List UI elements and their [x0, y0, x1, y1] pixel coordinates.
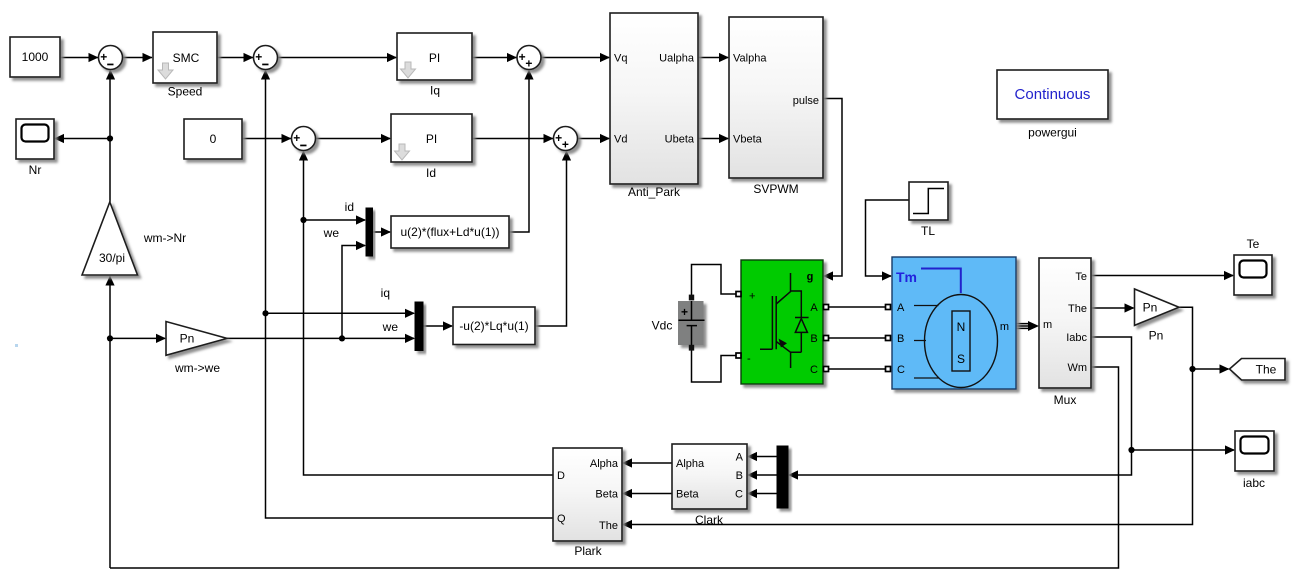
svg-text:+: + [100, 50, 107, 64]
wire motor m to Mux (bus) [1016, 324, 1030, 329]
wire 1000 to Sum1 [60, 57, 98, 59]
wire Sum3 to Anti_Park Vq [541, 57, 609, 59]
sum Sum3 [517, 46, 541, 71]
svg-text:Wm: Wm [1067, 362, 1087, 374]
svg-text:powergui: powergui [1028, 126, 1077, 140]
svg-text:Clark: Clark [695, 513, 724, 527]
svg-text:Mux: Mux [1054, 393, 1077, 407]
svg-text:C: C [735, 489, 743, 501]
svg-text:+: + [525, 57, 532, 71]
scope Te [1234, 237, 1272, 295]
svg-text:Ubeta: Ubeta [665, 134, 695, 146]
gain Pn (Te) [1135, 289, 1180, 343]
svg-text:SVPWM: SVPWM [753, 182, 798, 196]
svg-text:+: + [562, 138, 569, 152]
demux (iabc) [777, 446, 788, 508]
svg-text:g: g [807, 271, 814, 283]
svg-text:Pn: Pn [1143, 301, 1158, 315]
gain Pn wm->we [166, 322, 227, 376]
motor port leads [914, 306, 939, 379]
svg-text:Nr: Nr [29, 163, 42, 177]
wire Anti_Park Ubeta to SVPWM Vbeta [698, 138, 728, 140]
svg-text:-: - [747, 353, 751, 365]
node iabc branch [1128, 447, 1134, 453]
svg-text:wm->Nr: wm->Nr [143, 231, 186, 245]
svg-text:0: 0 [210, 132, 217, 146]
wire Plark D to Sum4 (id feedback) [304, 152, 554, 476]
wire Mux The to Pn [1091, 307, 1134, 309]
magnet rect N/S [952, 311, 970, 371]
svg-text:Vq: Vq [614, 53, 627, 65]
svg-text:Beta: Beta [676, 489, 700, 501]
wire PI Iq to Sum3 [472, 57, 517, 59]
svg-text:PI: PI [429, 51, 440, 65]
svg-text:30/pi: 30/pi [99, 251, 125, 265]
wire Pn output down to The tag and Plark The [623, 307, 1193, 524]
wire inverter A to motor A [829, 306, 885, 308]
scope Nr [16, 119, 54, 177]
wire Mux Wm bottom feedback [110, 367, 1119, 568]
wire Vdc plus to inverter [692, 265, 737, 296]
PI controller Iq [397, 33, 472, 98]
motor port squares [886, 305, 891, 310]
mux Mux1 (id,we) [323, 200, 373, 256]
svg-text:we: we [323, 226, 340, 240]
wire Clark Alpha to Plark Alpha [623, 462, 672, 464]
wire Sum5 to Anti_Park Vd [578, 138, 610, 140]
wire SMC to Sum2 [217, 57, 253, 59]
svg-text:wm->we: wm->we [174, 361, 220, 375]
powergui block [997, 70, 1108, 140]
sum Sum2 [254, 46, 278, 70]
node we branch to mux1 [339, 335, 345, 341]
wire The branch to tag [1193, 368, 1229, 370]
svg-text:m: m [1043, 319, 1052, 331]
wire fcn1 output up to Sum3 [509, 71, 529, 233]
wire Anti_Park Ualpha to SVPWM Valpha [698, 57, 728, 59]
wire mux1 to fcn1 [373, 231, 391, 233]
wire 30/pi apex to Sum1 bottom [109, 71, 111, 203]
wire Sum1 to SMC [123, 57, 153, 59]
inverter port squares [736, 292, 741, 297]
node The branch [1189, 366, 1195, 372]
svg-text:Beta: Beta [595, 489, 619, 501]
wire iq to mux2 [266, 312, 415, 314]
DC source Vdc [652, 295, 705, 351]
node id branch [300, 217, 306, 223]
svg-text:Te: Te [1247, 237, 1260, 251]
wire TL to motor Tm [866, 200, 910, 276]
wire Vdc minus to inverter [692, 350, 737, 382]
svg-text:A: A [897, 302, 905, 314]
sum Sum5 [554, 127, 578, 152]
svg-text:+: + [749, 291, 755, 303]
svg-text:Alpha: Alpha [590, 458, 619, 470]
wire Plark Q to Sum2 (iq feedback) [266, 71, 554, 519]
svg-text:m: m [1000, 321, 1009, 333]
svg-text:The: The [1256, 363, 1277, 377]
svg-text:C: C [897, 364, 905, 376]
svg-text:Alpha: Alpha [676, 458, 705, 470]
mux Mux2 (iq,we) [381, 286, 423, 351]
svg-text:Vdc: Vdc [652, 319, 673, 333]
PMSM motor block (blue) [886, 257, 1017, 389]
wire Pn (wm->we) output we-line [227, 337, 414, 339]
wire mux2 to fcn2 [423, 325, 452, 327]
svg-text:u(2)*(flux+Ld*u(1)): u(2)*(flux+Ld*u(1)) [400, 225, 499, 239]
output tag The [1230, 359, 1286, 381]
wire 0 to Sum4 [242, 138, 291, 140]
wire Clark Beta to Plark Beta [623, 493, 672, 495]
svg-text:A: A [810, 302, 818, 314]
gain 30/pi wm->Nr [82, 202, 186, 275]
step source TL [909, 182, 948, 238]
subsystem Clark [672, 444, 747, 527]
svg-text:PI: PI [426, 132, 437, 146]
wire fcn2 output up to Sum5 [535, 152, 567, 327]
svg-text:Valpha: Valpha [733, 53, 767, 65]
svg-text:pulse: pulse [793, 95, 819, 107]
svg-text:Continuous: Continuous [1015, 86, 1091, 103]
svg-text:Iabc: Iabc [1066, 332, 1087, 344]
svg-text:C: C [810, 364, 818, 376]
wire SVPWM pulse to inverter g [823, 99, 842, 277]
svg-text:Ualpha: Ualpha [659, 53, 695, 65]
wire PI Id to Sum5 [472, 138, 553, 140]
svg-text:B: B [736, 470, 743, 482]
svg-text:+: + [293, 131, 300, 145]
subsystem SMC [153, 32, 217, 99]
svg-text:-u(2)*Lq*u(1): -u(2)*Lq*u(1) [459, 319, 528, 333]
svg-text:Speed: Speed [168, 85, 203, 99]
wire we branch up to mux1 [342, 246, 365, 339]
svg-text:A: A [736, 452, 744, 464]
mux block Mux [1039, 258, 1091, 407]
PI controller Id [391, 114, 472, 180]
svg-text:Q: Q [557, 513, 566, 525]
wire feedback speed vertical x110 [109, 276, 111, 568]
svg-text:1000: 1000 [22, 50, 49, 64]
scope iabc [1235, 431, 1274, 490]
svg-text:B: B [897, 333, 904, 345]
wire demux to Clark A [748, 456, 777, 458]
svg-text:Tm: Tm [896, 269, 917, 285]
svg-text:Plark: Plark [574, 544, 602, 558]
wire demux to Clark C [748, 493, 777, 495]
svg-text:B: B [810, 333, 817, 345]
wire to Nr scope [55, 138, 110, 140]
svg-text:+: + [255, 50, 262, 64]
svg-text:The: The [599, 520, 618, 532]
wire inverter B to motor B [829, 337, 885, 339]
svg-text:Pn: Pn [180, 332, 195, 346]
svg-text:TL: TL [921, 224, 935, 238]
svg-text:Pn: Pn [1149, 329, 1164, 343]
wire iabc branch to iabc scope [1132, 449, 1235, 451]
svg-text:Vbeta: Vbeta [733, 134, 763, 146]
motor ellipse [925, 295, 998, 388]
svg-text:we: we [382, 320, 399, 334]
sum Sum1 [99, 46, 123, 70]
wire to Pn gain wm->we [110, 337, 165, 339]
fcn block u(2)*(flux+Ld*u(1)) [391, 216, 509, 248]
wire demux to Clark B [748, 474, 777, 476]
wire Mux Te to Te scope [1091, 275, 1233, 277]
svg-text:D: D [557, 470, 565, 482]
node iq branch [262, 310, 268, 316]
svg-text:Id: Id [426, 166, 436, 180]
wire Mux Iabc down to demux [789, 337, 1132, 475]
wire Sum2 to PI Iq [278, 57, 397, 59]
fcn block -u(2)*Lq*u(1) [453, 307, 535, 345]
inverter bridge (green) [736, 260, 829, 384]
svg-text:iabc: iabc [1243, 476, 1265, 490]
svg-text:iq: iq [381, 286, 390, 300]
wire Sum4 to PI Id [316, 138, 391, 140]
svg-text:SMC: SMC [173, 51, 200, 65]
svg-text:+: + [681, 305, 688, 319]
constant 0 [184, 119, 242, 159]
svg-text:Te: Te [1075, 271, 1087, 283]
node Nr branch [107, 135, 113, 141]
subsystem Anti_Park [610, 13, 698, 199]
svg-text:N: N [957, 320, 966, 334]
IGBT/diode icon [760, 273, 809, 368]
constant 1000 [10, 37, 60, 77]
svg-text:Iq: Iq [430, 84, 440, 98]
subsystem Plark [553, 448, 622, 558]
wire id to mux1 [304, 219, 366, 221]
sum Sum4 [292, 127, 316, 151]
svg-text:id: id [345, 200, 354, 214]
svg-text:Anti_Park: Anti_Park [628, 185, 681, 199]
annotation artifact dot [15, 344, 18, 347]
wire inverter C to motor C [829, 368, 885, 370]
svg-text:The: The [1068, 303, 1087, 315]
subsystem SVPWM [729, 17, 823, 196]
node Pn branch [107, 335, 113, 341]
svg-text:Vd: Vd [614, 134, 627, 146]
svg-text:S: S [957, 352, 965, 366]
